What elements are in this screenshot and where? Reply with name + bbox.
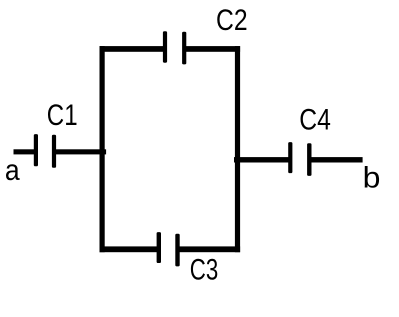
svg-text:C3: C3 [190,253,219,286]
wire C1 right plate to node A junction [56,149,106,154]
wire terminal a to C1 left plate [14,149,39,154]
capacitor C3 right plate [175,234,179,267]
svg-text:C2: C2 [216,4,248,37]
capacitor C1 left plate [34,134,38,166]
wire top left segment (node A to C2) [100,46,166,52]
capacitor C2 left plate [163,31,167,62]
svg-text:b: b [363,162,381,195]
svg-text:a: a [5,154,20,187]
capacitor C2 right plate [182,32,186,65]
wire C4 right plate to terminal b [309,157,362,162]
wire bottom left segment (node A to C3) [100,246,160,252]
wire node B junction to C4 left plate [234,157,290,162]
svg-text:C1: C1 [47,99,78,132]
capacitor C4 left plate [288,142,292,173]
capacitor C3 left plate [157,232,161,263]
wire bottom right segment (C3 to node B) [178,246,241,252]
right vertical wire (node B branch bus) [235,46,240,252]
wire top right segment (C2 to node B) [184,46,240,52]
left vertical wire (node A branch bus) [100,46,105,252]
capacitor C4 right plate [307,143,311,176]
capacitor C1 right plate [52,135,56,168]
svg-text:C4: C4 [299,103,331,136]
